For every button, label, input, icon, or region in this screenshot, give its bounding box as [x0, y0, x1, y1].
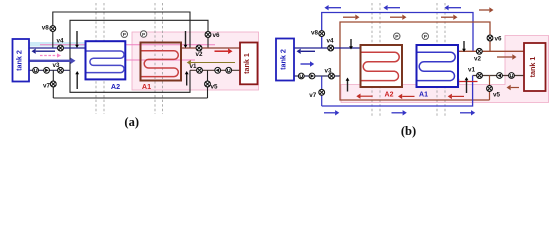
flow arrow into tank2 (b) — [297, 49, 316, 54]
flow arrow return upper right (b) — [455, 79, 478, 84]
valve v3 (b) — [329, 73, 335, 79]
flow arrow top right corner (b) — [479, 7, 494, 12]
wire outer loop top blue (b) — [322, 13, 473, 52]
dashed boundary line pair right (b) — [437, 3, 445, 117]
wire pipe tank1 supply (a) — [182, 47, 241, 49]
caption (b) — [401, 124, 416, 138]
label A1 (a) — [142, 82, 151, 91]
flow arrow top outer 3 (b) — [444, 5, 461, 10]
highlight region hot side (a) — [132, 32, 259, 90]
pink flow line upper (a) — [40, 44, 215, 46]
valve v7 (a) — [50, 81, 56, 87]
svg-text:tank 1: tank 1 — [528, 57, 537, 78]
valve v4 (b) — [328, 45, 334, 51]
valve v1 (b) — [477, 73, 483, 79]
flow arrow bottom red 2 (b) — [398, 94, 415, 99]
tank 1 (a) — [240, 43, 258, 85]
label v5 (a) — [210, 84, 218, 91]
svg-text:v4: v4 — [56, 38, 64, 45]
highlight band cold pipe (a) — [29, 42, 86, 47]
wire outer loop top (a) — [53, 12, 190, 48]
temperature probe below right (a) — [185, 71, 189, 86]
svg-text:v2: v2 — [474, 56, 482, 63]
flow arrow top inner 3 (b) — [441, 15, 458, 20]
valve v6 (b) — [487, 35, 493, 41]
wire pipe tank2 supply (b) — [294, 47, 361, 49]
tank 2 (a) — [13, 39, 30, 82]
label v5 (b) — [493, 92, 501, 99]
tank 1 (b) — [524, 43, 546, 91]
label v1 (a) — [189, 63, 197, 70]
label v6 (b) — [494, 36, 502, 43]
svg-text:v3: v3 — [52, 62, 60, 69]
svg-text:tank 1: tank 1 — [242, 53, 251, 74]
valve v8 (a) — [50, 26, 56, 32]
label A2 (b) — [385, 92, 394, 99]
label v4 (a) — [56, 38, 64, 45]
svg-text:v7: v7 — [43, 83, 51, 90]
label v8 (a) — [42, 24, 50, 31]
flow arrow into A2 (a) — [29, 58, 76, 64]
svg-text:A1: A1 — [419, 92, 428, 99]
pump U right (b) — [509, 73, 515, 79]
pressure gauge P right (a) — [140, 31, 146, 38]
wire inner bottom bus (a) — [70, 70, 190, 92]
temperature probe left (b) — [349, 39, 353, 50]
pump left (b) — [309, 73, 315, 79]
valve v2 (b) — [476, 48, 482, 54]
pressure gauge P right (b) — [422, 33, 428, 40]
svg-text:A2: A2 — [385, 92, 394, 99]
wire pipe tank1 lower (b) — [473, 75, 524, 77]
heat exchanger A2 (b) — [361, 45, 403, 87]
label A2 (a) — [111, 82, 120, 91]
wire pipe tank2 lower (a) — [29, 69, 70, 71]
svg-text:A2: A2 — [111, 82, 120, 91]
svg-text:(a): (a) — [124, 115, 139, 129]
flow arrow return from tank1 (b) — [507, 85, 520, 90]
flow arrow into tank1 (a) — [215, 48, 233, 54]
flow arrow from tank2 (b) — [301, 61, 315, 66]
svg-text:v8: v8 — [42, 24, 50, 31]
svg-text:v6: v6 — [494, 36, 502, 43]
valve v2 (a) — [196, 45, 202, 51]
svg-text:v5: v5 — [210, 84, 218, 91]
temperature probe below right (b) — [465, 77, 469, 93]
wire blue bottom bus (b) — [322, 76, 473, 107]
flow arrow top outer 1 (b) — [324, 5, 341, 10]
label v8 (b) — [311, 30, 319, 37]
wire v7 drop blue (b) — [321, 76, 323, 106]
valve v3 (a) — [58, 67, 64, 73]
flow arrow toward tank1 (b) — [497, 54, 517, 59]
label A1 (b) — [419, 92, 428, 99]
valve v5 (a) — [205, 81, 211, 87]
valve v6 (a) — [205, 32, 211, 38]
svg-text:v2: v2 — [195, 51, 203, 58]
wire pipe tank1 lower (a) — [190, 69, 240, 71]
svg-text:tank 2: tank 2 — [278, 49, 287, 70]
wire outer bottom bus (a) — [53, 97, 207, 99]
svg-text:v3: v3 — [324, 68, 332, 75]
valve v5 (b) — [487, 86, 493, 92]
svg-text:v1: v1 — [468, 67, 476, 74]
temperature probe below left (b) — [346, 78, 350, 92]
wire v5 drop (a) — [207, 70, 209, 98]
heat exchanger A2 (a) — [86, 41, 126, 79]
pressure gauge P left (a) — [121, 31, 127, 38]
temperature probe right (b) — [462, 41, 466, 52]
svg-text:v7: v7 — [309, 92, 317, 99]
wire pipe tank1 supply (b) — [459, 50, 525, 52]
flow arrow top inner 1 (b) — [343, 15, 360, 20]
pump right (a) — [215, 67, 221, 73]
flow arrow return from tank1 (a) — [187, 60, 235, 65]
label v7 (b) — [309, 92, 317, 99]
flow arrow bottom red 3 (b) — [448, 94, 464, 99]
heat exchanger A1 (b) — [417, 45, 459, 87]
tank 2 (b) — [276, 39, 294, 81]
svg-text:v8: v8 — [311, 30, 319, 37]
pump left (a) — [44, 67, 50, 73]
label v2 (a) — [195, 51, 203, 58]
pressure gauge P left (b) — [394, 33, 400, 40]
temperature probe right (a) — [184, 31, 188, 48]
svg-text:v6: v6 — [212, 32, 220, 39]
label v4 (b) — [326, 38, 334, 45]
valve v7 (b) — [319, 89, 325, 95]
temperature probe below left (a) — [75, 71, 79, 89]
highlight region hot side (b) — [341, 36, 549, 103]
label v6 (a) — [212, 32, 220, 39]
flow arrow top inner 2 (b) — [390, 15, 407, 20]
dashed boundary line pair left (a) — [96, 3, 104, 114]
valve v4 (a) — [58, 45, 64, 51]
pump right (b) — [497, 73, 503, 79]
pink dashed arrow (a) — [40, 53, 61, 57]
temperature probe left (a) — [75, 31, 79, 48]
flow arrow bottom blue 2 (b) — [392, 110, 407, 115]
flow arrow bottom red 1 (b) — [356, 94, 372, 99]
heat exchanger A1 (a) — [141, 43, 182, 81]
wire pipe tank2 lower (b) — [294, 75, 340, 77]
label v2 (b) — [474, 56, 482, 63]
label v1 (b) — [468, 67, 476, 74]
svg-text:tank 2: tank 2 — [15, 50, 24, 71]
svg-text:v5: v5 — [493, 92, 501, 99]
dashed boundary line pair right (a) — [155, 3, 163, 114]
pink flow line lower (a) — [86, 59, 195, 61]
flow arrow bottom blue 1 (b) — [324, 110, 339, 115]
valve v8 (b) — [319, 31, 325, 37]
svg-text:v1: v1 — [189, 63, 197, 70]
wire v5 riser brown (b) — [489, 76, 491, 101]
pump U right (a) — [226, 67, 232, 73]
flow arrow top outer 2 (b) — [383, 5, 400, 10]
wire v7 drop (a) — [52, 70, 54, 98]
label v7 (a) — [43, 83, 51, 90]
pump U left (b) — [298, 73, 304, 79]
svg-text:A1: A1 — [142, 82, 151, 91]
label v3 (a) — [52, 62, 60, 69]
wire brown bottom bus (b) — [340, 76, 490, 100]
flow arrow bottom blue 3 (b) — [460, 110, 475, 115]
svg-text:v4: v4 — [326, 38, 334, 45]
wire pipe tank2 supply (a) — [29, 47, 86, 49]
pump U left (a) — [33, 67, 39, 73]
label v3 (b) — [324, 68, 332, 75]
wire inner loop top (a) — [70, 20, 208, 70]
svg-text:(b): (b) — [401, 124, 416, 138]
wire inner loop top red (b) — [340, 22, 490, 76]
caption (a) — [124, 115, 139, 129]
flow arrow into tank2 (a) — [32, 49, 56, 54]
valve v1 (a) — [197, 67, 203, 73]
dashed boundary line pair left (b) — [372, 3, 380, 117]
